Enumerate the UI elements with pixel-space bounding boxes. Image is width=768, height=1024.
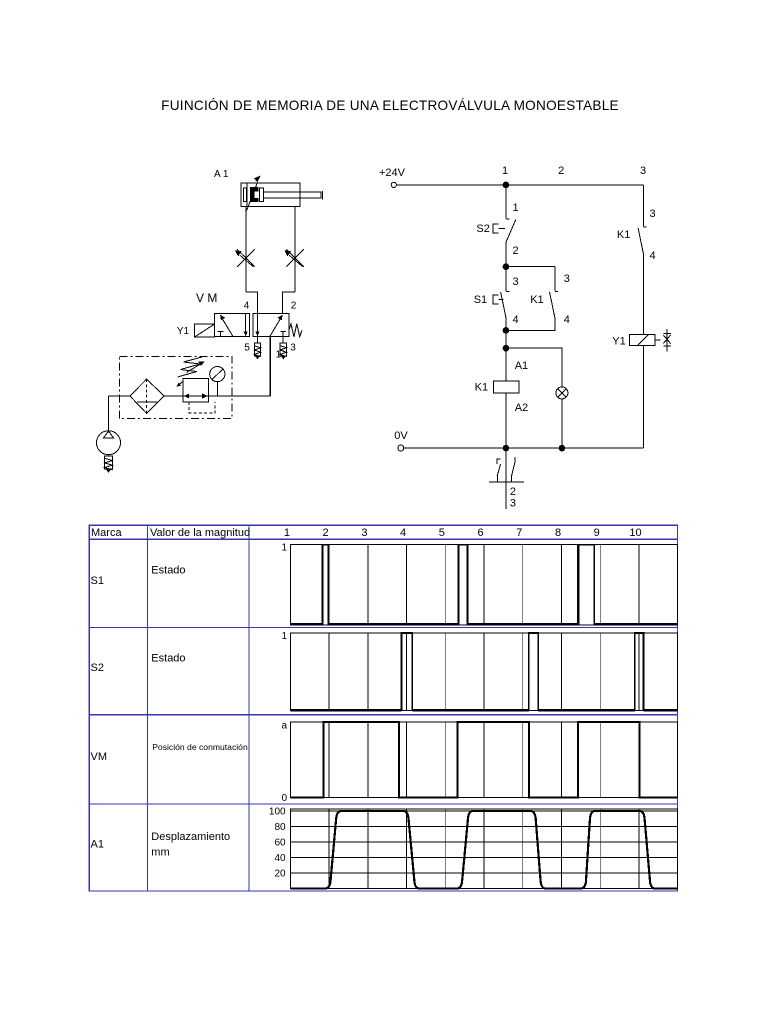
label S1 <box>474 294 487 306</box>
wire port 3 stub <box>282 337 284 344</box>
svg-text:2: 2 <box>510 486 516 498</box>
label Desplazamiento <box>151 831 230 843</box>
wire S1 lower <box>505 317 507 348</box>
silencer port 3 <box>280 343 286 359</box>
svg-text:A1: A1 <box>91 839 104 851</box>
label A1 <box>515 360 528 372</box>
wire lamp branch top <box>506 348 562 387</box>
A1 displacement curve <box>290 811 677 889</box>
regulator spring (adjustable) <box>178 357 205 377</box>
S1 axis label 1 <box>281 543 287 554</box>
label Y1 coil <box>612 336 625 348</box>
svg-text:2: 2 <box>513 245 519 257</box>
node join K1 branch <box>503 328 509 334</box>
svg-text:3: 3 <box>361 527 367 539</box>
label port 1 <box>276 350 282 361</box>
table row line S1/S2 <box>89 627 677 629</box>
table column line 1 <box>147 525 149 891</box>
svg-text:2: 2 <box>558 165 564 177</box>
title <box>161 98 619 113</box>
label linkage 3 <box>510 498 516 510</box>
A1 vertical gridlines <box>329 809 639 889</box>
label Estado S2 <box>151 653 185 665</box>
VM signal <box>290 722 677 797</box>
wire cylinder right port down <box>294 207 296 293</box>
regulator pilot line (dashed) <box>189 402 215 413</box>
label pin 3 (K1) <box>564 273 570 285</box>
contact K1 (NO, right branch) <box>638 227 647 253</box>
wire right column mid <box>642 253 644 334</box>
label linkage 2 <box>510 486 516 498</box>
svg-text:4: 4 <box>400 527 406 539</box>
switch linkage below 0V <box>489 448 524 509</box>
svg-text:1: 1 <box>502 165 508 177</box>
VM plot frame <box>290 722 677 797</box>
svg-text:0: 0 <box>281 793 287 804</box>
valve return spring <box>289 324 302 337</box>
terminal +24V <box>391 182 396 187</box>
wire port 2 jog <box>283 292 296 313</box>
table row line S2/VM <box>89 714 677 716</box>
svg-text:5: 5 <box>439 527 445 539</box>
svg-text:1: 1 <box>281 543 287 554</box>
svg-text:mm: mm <box>151 847 169 859</box>
label port 4 <box>244 301 250 312</box>
relay coil K1 <box>494 348 520 393</box>
filter <box>130 379 164 413</box>
label +24V <box>379 167 406 179</box>
svg-text:Y1: Y1 <box>612 336 625 348</box>
wire pump to supply <box>108 396 110 431</box>
svg-text:6: 6 <box>477 527 483 539</box>
label S2 <box>476 223 489 235</box>
label pin 3 (right K1) <box>650 208 656 220</box>
svg-text:9: 9 <box>594 527 600 539</box>
svg-text:Estado: Estado <box>151 653 185 665</box>
svg-text:20: 20 <box>274 869 286 880</box>
row labels <box>91 565 248 859</box>
svg-text:a: a <box>281 721 287 732</box>
label K1 right <box>617 229 630 241</box>
table outer border <box>89 525 677 891</box>
svg-text:S2: S2 <box>476 223 489 235</box>
svg-text:3: 3 <box>640 165 646 177</box>
label A2 <box>515 402 528 414</box>
svg-text:2: 2 <box>291 301 297 312</box>
label pin 2 <box>513 245 519 257</box>
S1 plot frame <box>290 545 677 625</box>
wire port 5 stub <box>257 337 259 344</box>
service unit enclosure (dash-dot box) <box>119 356 232 418</box>
svg-text:40: 40 <box>274 853 286 864</box>
label VM <box>196 291 217 305</box>
svg-text:S1: S1 <box>474 294 487 306</box>
svg-text:A 1: A 1 <box>214 169 229 180</box>
label column 2 <box>558 165 564 177</box>
svg-text:+24V: +24V <box>379 167 406 179</box>
svg-text:3: 3 <box>510 498 516 510</box>
wire K1 contact lower <box>506 317 555 330</box>
label Y1 <box>177 326 190 337</box>
node 0V K1 <box>503 445 509 451</box>
throttle valve left <box>235 249 255 267</box>
svg-text:4: 4 <box>564 314 570 326</box>
node lamp branch <box>503 345 509 351</box>
label 0V <box>394 430 408 442</box>
svg-text:4: 4 <box>650 250 656 262</box>
supply line mid segment <box>164 395 183 397</box>
svg-text:Y1: Y1 <box>177 326 190 337</box>
label Marca <box>91 527 122 539</box>
throttle valve right <box>284 249 304 267</box>
label A1 <box>214 169 229 180</box>
svg-text:A2: A2 <box>515 402 528 414</box>
label pin 4 (right K1) <box>650 250 656 262</box>
table header row line <box>89 538 677 540</box>
svg-text:Marca: Marca <box>91 527 122 539</box>
wire port 1 supply <box>269 337 271 396</box>
A1 horizontal gridlines <box>290 811 677 873</box>
label port 2 <box>291 301 297 312</box>
valve link indicator <box>663 329 671 351</box>
S2 plot frame <box>290 633 677 710</box>
chart column numbers <box>284 527 642 539</box>
S2 vertical gridlines <box>329 633 639 710</box>
svg-text:80: 80 <box>274 822 286 833</box>
VM vertical gridlines <box>329 722 639 797</box>
VM axis label a <box>281 721 287 732</box>
wire Y1 to 0V <box>642 346 644 448</box>
label A1 row <box>91 839 104 851</box>
silencer port 5 <box>254 343 260 359</box>
node rail junction <box>503 182 509 188</box>
wire K1 coil to 0V <box>505 393 507 448</box>
wire below S2 <box>505 243 507 267</box>
svg-text:60: 60 <box>274 838 286 849</box>
svg-text:1: 1 <box>513 202 519 214</box>
valve VM left position arrows <box>218 313 248 336</box>
table row line VM/A1 <box>89 803 677 805</box>
svg-text:A1: A1 <box>515 360 528 372</box>
cylinder A1 <box>241 176 322 211</box>
svg-text:3: 3 <box>650 208 656 220</box>
table header texts <box>91 527 642 539</box>
svg-text:1: 1 <box>284 527 290 539</box>
label Estado S1 <box>151 565 185 577</box>
pressure regulator <box>177 379 209 402</box>
label K1 coil <box>475 382 488 394</box>
node 0V lamp <box>559 445 565 451</box>
wire K1 contact upper <box>554 267 556 292</box>
label S2 row <box>91 662 104 674</box>
label port 3 <box>290 343 296 354</box>
svg-text:0V: 0V <box>394 430 408 442</box>
wire 0V rail <box>404 447 643 449</box>
svg-text:Estado: Estado <box>151 565 185 577</box>
indicator lamp <box>556 387 568 399</box>
svg-text:Posición de conmutación: Posición de conmutación <box>152 742 248 752</box>
valve VM body <box>215 313 289 336</box>
svg-text:3: 3 <box>513 276 519 288</box>
label K1 aux <box>530 294 543 306</box>
svg-text:Desplazamiento: Desplazamiento <box>151 831 230 843</box>
valve solenoid Y1 coil <box>630 334 661 345</box>
label Posicion de conmutacion <box>152 742 248 752</box>
valve VM right position arrows <box>255 313 286 336</box>
A1 axis labels <box>269 806 286 879</box>
pressure gauge <box>210 367 225 397</box>
compressor <box>97 431 121 455</box>
table column line 2 <box>248 525 250 891</box>
label pin 4 (K1) <box>564 314 570 326</box>
wire S1 upper <box>505 267 507 292</box>
contact K1 aux (NO) <box>550 292 559 318</box>
svg-text:VM: VM <box>91 751 108 763</box>
svg-text:8: 8 <box>555 527 561 539</box>
label column 3 <box>640 165 646 177</box>
svg-text:1: 1 <box>281 631 287 642</box>
svg-text:K1: K1 <box>617 229 630 241</box>
S2 signal <box>290 709 677 712</box>
terminal 0V <box>398 445 404 451</box>
compressor exhaust silencer <box>105 455 113 473</box>
A1 plot frame <box>290 809 677 889</box>
S1 vertical gridlines <box>329 545 639 625</box>
svg-text:V M: V M <box>196 291 217 305</box>
wire main column upper <box>505 185 507 218</box>
label mm <box>151 847 169 859</box>
contact S2 (NC) <box>493 219 516 243</box>
svg-text:S1: S1 <box>91 575 104 587</box>
svg-text:2: 2 <box>323 527 329 539</box>
wire cylinder left port down <box>245 207 247 293</box>
svg-text:4: 4 <box>513 314 519 326</box>
label S1 row <box>91 575 104 587</box>
VM axis label 0 <box>281 793 287 804</box>
S2 axis label 1 <box>281 631 287 642</box>
contact S1 (NO) <box>493 292 509 318</box>
supply line right segment <box>209 395 271 397</box>
wire lamp to 0V <box>561 399 563 448</box>
wire port 4 jog <box>246 292 257 313</box>
label column 1 <box>502 165 508 177</box>
label pin 1 <box>513 202 519 214</box>
svg-text:K1: K1 <box>530 294 543 306</box>
svg-text:5: 5 <box>244 343 250 354</box>
svg-text:FUINCIÓN DE MEMORIA DE UNA ELE: FUINCIÓN DE MEMORIA DE UNA ELECTROVÁLVUL… <box>161 98 619 113</box>
svg-text:S2: S2 <box>91 662 104 674</box>
svg-text:3: 3 <box>564 273 570 285</box>
wire branch to K1 contact <box>506 266 555 268</box>
label port 5 <box>244 343 250 354</box>
supply line left segment <box>109 395 130 397</box>
node branch junction <box>503 264 509 270</box>
label VM row <box>91 751 108 763</box>
wire K1 lamp branch right column upper <box>642 185 644 227</box>
svg-text:3: 3 <box>290 343 296 354</box>
label Valor de la magnitud <box>150 527 250 539</box>
solenoid Y1 box <box>195 324 215 337</box>
svg-text:4: 4 <box>244 301 250 312</box>
svg-text:7: 7 <box>516 527 522 539</box>
svg-text:K1: K1 <box>475 382 488 394</box>
label pin 3 (S1) <box>513 276 519 288</box>
svg-text:100: 100 <box>269 806 286 817</box>
S1 signal <box>290 623 677 626</box>
wire +24V rail <box>396 184 643 186</box>
svg-text:Valor de la magnitud: Valor de la magnitud <box>150 527 250 539</box>
label pin 4 (S1) <box>513 314 519 326</box>
svg-text:10: 10 <box>629 527 641 539</box>
